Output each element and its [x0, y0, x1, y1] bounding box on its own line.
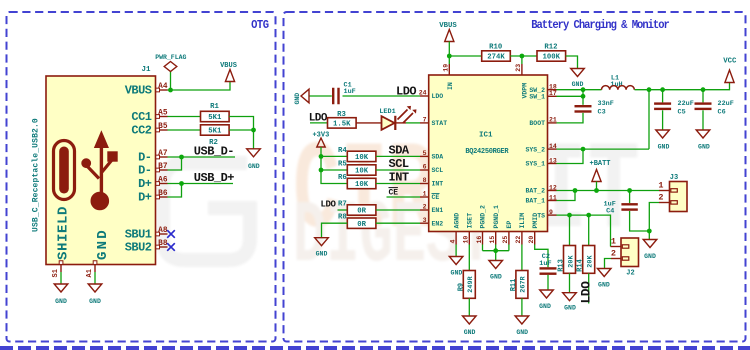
svg-text:R4: R4 — [338, 147, 347, 155]
svg-text:VCC: VCC — [723, 58, 737, 66]
ground CC — [247, 149, 261, 157]
svg-text:B7: B7 — [158, 163, 168, 171]
wire R13 to ground — [569, 273, 571, 292]
junction SW b — [581, 94, 586, 99]
connector J2 — [621, 238, 639, 267]
svg-text:20K: 20K — [567, 255, 575, 268]
J2 pin 2 — [611, 258, 621, 260]
svg-text:GND: GND — [644, 253, 656, 260]
junction R4 — [319, 154, 324, 159]
IC1 pin 12 BAT_2 — [548, 190, 557, 192]
junction SYS — [581, 147, 586, 152]
svg-text:1uH: 1uH — [610, 81, 622, 89]
svg-text:SDA: SDA — [432, 154, 444, 161]
junction rail b — [660, 87, 665, 92]
svg-text:R1: R1 — [210, 103, 219, 111]
junction BAT c — [627, 188, 632, 193]
ground C5 — [656, 130, 670, 138]
svg-text:100K: 100K — [543, 54, 561, 62]
J1 pin B7 D- — [156, 169, 168, 171]
USB trident icon — [82, 132, 117, 210]
PWR_FLAG — [170, 72, 172, 91]
svg-text:1: 1 — [611, 237, 616, 247]
svg-text:10K: 10K — [355, 181, 369, 189]
svg-text:22uF: 22uF — [718, 100, 734, 108]
svg-text:2: 2 — [658, 193, 663, 203]
wire J2 pin2 to ground — [605, 259, 612, 269]
svg-text:D-: D- — [138, 164, 151, 178]
svg-text:CC1: CC1 — [131, 110, 151, 124]
svg-text:15: 15 — [489, 236, 496, 244]
wire R8 to EN2 — [376, 222, 420, 224]
ground R13 — [563, 293, 577, 301]
ground R9 — [463, 316, 477, 324]
svg-text:14: 14 — [549, 143, 557, 150]
svg-text:5: 5 — [423, 150, 427, 157]
svg-text:GND: GND — [698, 144, 710, 151]
IC1 pin 7 STAT — [420, 122, 429, 124]
wire SYS_2 rail — [557, 148, 650, 150]
J1 pin A1 GND — [94, 265, 96, 273]
svg-text:GND: GND — [89, 298, 101, 305]
svg-text:LDO: LDO — [579, 281, 594, 304]
svg-text:BAT_2: BAT_2 — [525, 188, 545, 195]
svg-text:USB_D-: USB_D- — [194, 144, 234, 158]
wire C3 to BOOT — [557, 113, 584, 123]
ground S1 — [54, 284, 68, 292]
capacitor C5 22uF — [662, 90, 664, 103]
svg-text:1.5K: 1.5K — [333, 121, 351, 129]
svg-text:SCL: SCL — [389, 157, 409, 171]
svg-text:274K: 274K — [487, 54, 505, 62]
wire R5 to SCL — [376, 169, 420, 171]
IC1 pin 17 SW_1 — [548, 95, 557, 97]
svg-text:3: 3 — [423, 217, 427, 224]
IC1 pin 4 AGND — [455, 232, 457, 245]
svg-text:A7: A7 — [158, 150, 168, 158]
J1 pin B8 SBU2 — [156, 246, 168, 248]
ground A1 — [88, 284, 102, 292]
svg-text:SDA: SDA — [389, 143, 410, 157]
IC1 pin 10 ISET — [468, 232, 470, 245]
svg-text:8: 8 — [423, 177, 427, 184]
svg-text:6: 6 — [423, 164, 427, 171]
svg-text:EN1: EN1 — [432, 207, 444, 214]
svg-text:0R: 0R — [357, 221, 366, 229]
wire +3V3 rail — [321, 147, 347, 184]
svg-text:R5: R5 — [338, 161, 347, 169]
wire R4 to SDA — [376, 155, 420, 157]
svg-text:C6: C6 — [718, 109, 726, 117]
svg-text:INT: INT — [389, 171, 409, 185]
ground R12 — [571, 69, 585, 77]
IC1 pin 9 TS — [548, 214, 557, 216]
svg-text:5K1: 5K1 — [208, 114, 222, 122]
svg-text:11: 11 — [549, 194, 557, 201]
wire BAT_2 rail — [557, 190, 660, 192]
wire D- A7 — [168, 156, 236, 158]
junction D- — [179, 155, 184, 160]
IC1 pin 11 BAT_1 — [548, 200, 557, 202]
IC1 pin 23 VDPM — [521, 56, 523, 64]
wire ISET to R9 — [468, 245, 470, 271]
svg-text:17: 17 — [549, 90, 557, 97]
wire D- B7 — [168, 157, 182, 170]
svg-text:GND: GND — [464, 329, 476, 336]
junction SW a — [581, 87, 586, 92]
svg-text:GND: GND — [451, 269, 463, 276]
ground C1 sideways — [301, 89, 309, 103]
wire D+ A6 — [168, 183, 234, 185]
wire TS to R14 — [588, 215, 590, 245]
wire to R4 — [321, 155, 347, 157]
svg-text:19: 19 — [442, 64, 449, 72]
svg-text:GND: GND — [294, 93, 301, 105]
junction VDPM node — [520, 54, 525, 59]
ground PGND — [489, 261, 503, 269]
svg-text:VBUS: VBUS — [220, 62, 237, 70]
svg-text:2: 2 — [611, 249, 616, 259]
svg-text:GND: GND — [316, 251, 328, 258]
wire LDO to R3 — [310, 122, 328, 124]
svg-text:21: 21 — [549, 117, 557, 124]
svg-text:B6: B6 — [158, 190, 168, 198]
svg-text:SBU1: SBU1 — [125, 228, 152, 242]
svg-text:EP: EP — [506, 221, 513, 229]
junction IN node — [447, 54, 452, 59]
svg-text:A6: A6 — [158, 177, 168, 185]
J1 pin A6 D+ — [156, 183, 168, 185]
svg-text:LDO: LDO — [321, 199, 337, 209]
svg-text:R6: R6 — [338, 174, 347, 182]
wire R2 to node — [229, 129, 253, 131]
ground AGND — [449, 257, 463, 265]
svg-text:GND: GND — [55, 298, 67, 305]
svg-text:4: 4 — [449, 240, 456, 244]
svg-text:PMID: PMID — [532, 213, 539, 229]
svg-text:33nF: 33nF — [598, 100, 614, 108]
svg-text:249R: 249R — [467, 275, 475, 292]
svg-text:1uF: 1uF — [539, 260, 551, 268]
svg-text:LDO: LDO — [432, 93, 444, 100]
IC1 pin 2 EN1 — [420, 209, 429, 211]
IC1 pin 16 PGND_2 — [482, 232, 484, 245]
ground R11 — [515, 316, 529, 324]
IC1 pin 19 IN — [448, 56, 450, 64]
svg-text:GND: GND — [516, 329, 528, 336]
svg-text:GND: GND — [539, 303, 551, 310]
junction TS a — [567, 213, 572, 218]
svg-text:D+: D+ — [138, 191, 152, 205]
svg-text:GND: GND — [598, 281, 610, 288]
svg-text:D+: D+ — [138, 177, 152, 191]
svg-text:EN2: EN2 — [432, 220, 444, 227]
svg-text:23: 23 — [515, 64, 522, 72]
wire rail to SYS — [648, 90, 650, 149]
svg-text:AGND: AGND — [453, 213, 460, 229]
junction rail a — [647, 87, 652, 92]
wire VBUS A4 — [168, 82, 231, 91]
wire R1 to node — [229, 117, 253, 131]
svg-text:SHIELD: SHIELD — [56, 206, 72, 260]
svg-text:9: 9 — [549, 209, 553, 216]
wire VBUS to R10 — [449, 55, 481, 57]
svg-text:22: 22 — [515, 236, 522, 244]
wire C4 to ground node — [630, 211, 650, 231]
junction R5 — [319, 168, 324, 173]
J3 pin 2 — [659, 202, 670, 204]
ground J3 — [643, 240, 657, 248]
wire CC node to ground — [253, 130, 255, 149]
svg-text:J1: J1 — [141, 66, 151, 74]
IC1 pin 21 BOOT — [548, 122, 557, 124]
svg-text:GND: GND — [572, 81, 584, 88]
ground C6 — [696, 130, 710, 138]
J3 pin 1 — [659, 190, 670, 192]
svg-text:B8: B8 — [158, 240, 168, 248]
connector J1 body — [46, 76, 156, 265]
svg-text:10K: 10K — [355, 168, 369, 176]
wire R14 to LDO label — [588, 273, 590, 303]
svg-text:10K: 10K — [355, 154, 369, 162]
svg-text:20K: 20K — [587, 255, 595, 268]
J1 pin A7 D- — [156, 156, 168, 158]
no-connect SBU1 — [167, 230, 175, 238]
IC1 pin 8 INT — [420, 183, 429, 185]
sheet border bottom — [0, 346, 750, 350]
svg-text:PGND_1: PGND_1 — [493, 205, 500, 229]
J1 pin S1 SHIELD — [60, 265, 62, 273]
svg-text:2: 2 — [423, 204, 427, 211]
junction D+ — [179, 181, 184, 186]
svg-text:BOOT: BOOT — [529, 120, 545, 127]
svg-text:USB_C_Receptacle_USB2.0: USB_C_Receptacle_USB2.0 — [32, 118, 41, 232]
svg-text:OTG: OTG — [251, 19, 269, 32]
svg-text:PWR_FLAG: PWR_FLAG — [155, 54, 186, 61]
USB receptacle pill icon — [54, 141, 75, 200]
svg-text:CC2: CC2 — [131, 124, 151, 138]
svg-text:A8: A8 — [158, 227, 168, 235]
svg-text:IN: IN — [447, 82, 454, 90]
IC1 pin 6 SCL — [420, 169, 429, 171]
svg-text:USB_D+: USB_D+ — [194, 171, 235, 185]
svg-text:A5: A5 — [158, 110, 168, 118]
svg-text:16: 16 — [476, 236, 483, 244]
svg-text:GND: GND — [95, 228, 111, 260]
wire L1 to VCC rail — [635, 83, 730, 90]
svg-text:5K1: 5K1 — [208, 128, 222, 136]
IC1 pin 15 PGND_1 — [495, 232, 497, 245]
IC1 pin 1 CE — [420, 196, 429, 198]
svg-text:A1: A1 — [86, 269, 94, 277]
svg-text:25: 25 — [502, 236, 509, 244]
ground J2 — [597, 269, 611, 277]
junction CC node — [251, 128, 256, 133]
svg-text:R8: R8 — [338, 214, 347, 222]
svg-text:VDPM: VDPM — [521, 83, 528, 99]
junction BAT a — [573, 188, 578, 193]
watermark circuitdigest logo — [163, 123, 640, 288]
capacitor C3 33nF — [582, 96, 584, 105]
svg-text:22uF: 22uF — [678, 100, 694, 108]
wire PMID to C2 — [535, 245, 548, 268]
svg-text:IC1: IC1 — [479, 132, 493, 140]
wire ILIM to R11 — [521, 245, 523, 271]
svg-text:R7: R7 — [338, 200, 347, 208]
wire CE — [387, 196, 421, 198]
J2 pin 1 — [611, 246, 622, 248]
svg-text:SBU2: SBU2 — [125, 241, 152, 255]
J1 pin A5 CC1 — [156, 116, 168, 118]
svg-text:B5: B5 — [158, 123, 168, 131]
wire TS to R13 — [569, 215, 571, 245]
junction TS b — [586, 213, 591, 218]
IC1 pin 5 SDA — [420, 155, 429, 157]
wire PGND EP to ground — [482, 245, 484, 251]
svg-text:1: 1 — [658, 181, 663, 191]
ground C2 — [540, 290, 554, 298]
J1 pin B6 D+ — [156, 196, 168, 198]
svg-text:C4: C4 — [606, 207, 614, 215]
junction C4 gnd — [647, 229, 652, 234]
wire C2 to ground — [547, 275, 549, 290]
J1 pin A8 SBU1 — [156, 233, 168, 235]
svg-text:INT: INT — [432, 181, 444, 188]
wire to R5 — [321, 169, 347, 171]
svg-text:1uF: 1uF — [344, 88, 356, 96]
wire SYS_1 join — [557, 149, 584, 163]
svg-text:ILIM: ILIM — [519, 213, 526, 229]
wire LED1 to STAT — [395, 122, 406, 124]
svg-text:SYS_2: SYS_2 — [525, 146, 545, 153]
svg-text:STAT: STAT — [432, 120, 448, 127]
wire D+ B6 — [168, 184, 182, 198]
wire A1 to ground — [94, 272, 96, 284]
svg-text:SW_1: SW_1 — [529, 94, 545, 101]
svg-text:GND: GND — [248, 163, 260, 170]
svg-text:J2: J2 — [626, 269, 634, 277]
svg-text:A4: A4 — [158, 83, 168, 91]
svg-text:7: 7 — [423, 117, 427, 124]
wire R7 to EN1 — [376, 209, 420, 211]
IC1 pin 24 LDO — [420, 95, 429, 97]
svg-text:10: 10 — [463, 236, 470, 244]
svg-text:0R: 0R — [357, 208, 366, 216]
junction rail c — [701, 87, 706, 92]
wire LDO row — [343, 95, 421, 97]
svg-text:CE: CE — [389, 189, 399, 198]
IC1 pin 18 SW_2 — [548, 89, 557, 91]
svg-text:VBUS: VBUS — [439, 22, 457, 30]
wire R12 to ground — [566, 56, 578, 69]
svg-text:267R: 267R — [520, 275, 528, 292]
svg-text:GND: GND — [490, 274, 502, 281]
IC1 pin 14 SYS_2 — [548, 148, 557, 150]
wire C1 to ground — [309, 95, 332, 97]
svg-text:SCL: SCL — [432, 167, 444, 174]
svg-text:C5: C5 — [678, 109, 686, 117]
svg-text:D-: D- — [138, 151, 151, 165]
svg-text:C3: C3 — [598, 109, 606, 117]
svg-text:BAT_1: BAT_1 — [525, 198, 545, 205]
wire R9 to ground — [468, 298, 470, 316]
wire R6 to INT — [376, 183, 420, 185]
svg-text:SYS_1: SYS_1 — [525, 161, 545, 168]
wire R11 to ground — [521, 298, 523, 316]
IC1 pin 25 EP — [508, 232, 510, 245]
IC1 pin 13 SYS_1 — [548, 163, 557, 165]
wire SW_2 SW_1 node — [557, 89, 602, 91]
junction BAT b — [594, 188, 599, 193]
wire R10 to VDPM node — [510, 55, 537, 57]
no-connect SBU2 — [167, 243, 175, 251]
junction VBUS — [168, 88, 173, 93]
svg-text:PGND_2: PGND_2 — [480, 205, 487, 229]
svg-text:+BATT: +BATT — [590, 160, 611, 168]
OTG section box — [7, 12, 276, 342]
wire AGND to ground — [455, 245, 457, 257]
svg-text:12: 12 — [549, 184, 557, 191]
resistor R2 5K1 — [201, 125, 230, 135]
Battery Charging & Monitor section box — [284, 12, 746, 342]
IC1 pin 3 EN2 — [420, 222, 429, 224]
J1 pin A4 VBUS — [156, 89, 168, 91]
svg-text:GND: GND — [564, 305, 576, 312]
wire S1 to ground — [60, 272, 62, 284]
svg-text:BQ24250RGER: BQ24250RGER — [465, 148, 509, 156]
wire J3 pin2 to ground node — [649, 203, 659, 240]
svg-text:VBUS: VBUS — [125, 84, 152, 98]
wire R3 to LED1 — [357, 122, 382, 124]
junction PGND — [493, 248, 498, 253]
power VBUS left — [225, 70, 234, 82]
J1 pin B5 CC2 — [156, 129, 168, 131]
svg-text:S1: S1 — [52, 269, 60, 277]
wire LDO to R7 — [338, 209, 348, 211]
capacitor C6 22uF — [702, 90, 704, 103]
IC1 pin 22 ILIM — [521, 232, 523, 245]
IC U1 body — [429, 75, 548, 232]
ground R8 — [315, 238, 329, 246]
wire CC1 to R1 — [168, 116, 201, 118]
svg-text:Battery Charging & Monitor: Battery Charging & Monitor — [531, 19, 669, 32]
svg-text:13: 13 — [549, 157, 557, 164]
svg-text:1: 1 — [423, 191, 427, 198]
svg-text:ISET: ISET — [467, 213, 474, 229]
svg-text:GND: GND — [658, 144, 670, 151]
wire TS node — [557, 215, 611, 246]
wire BAT_1 join — [557, 191, 576, 201]
wire CC2 to R2 — [168, 129, 201, 131]
svg-text:LED1: LED1 — [379, 108, 395, 116]
svg-text:20: 20 — [528, 236, 535, 244]
wire R8 to ground — [322, 223, 348, 238]
svg-text:CE: CE — [432, 194, 440, 201]
IC1 pin 20 PMID — [534, 232, 536, 245]
